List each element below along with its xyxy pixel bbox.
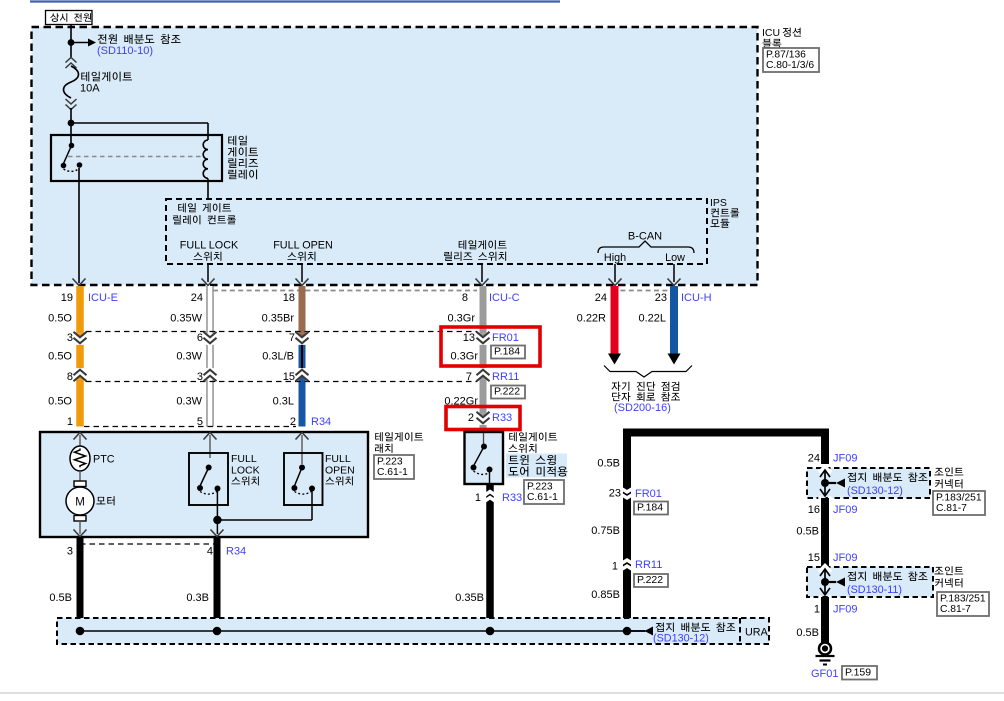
node: joint connector junction (SD130-12) <box>821 479 829 487</box>
wire 0.3L/0.3L/B (blue) lower run <box>299 334 306 427</box>
svg-text:RR11: RR11 <box>492 371 519 383</box>
svg-text:0.5B: 0.5B <box>796 526 819 538</box>
arrow: pin 5 wire entering latch box <box>204 433 217 440</box>
joint connector JF09 box (SD130-12) <box>807 468 930 498</box>
svg-text:JF09: JF09 <box>833 504 857 516</box>
wire 0.5O (orange) full run <box>76 286 84 427</box>
node: joint connector junction (SD130-11) <box>821 578 829 586</box>
arrow: relay output to pin 19 <box>73 279 86 286</box>
svg-text:0.5B: 0.5B <box>49 592 72 604</box>
svg-text:0.3L: 0.3L <box>273 396 294 408</box>
svg-text:C.61-1: C.61-1 <box>527 492 558 503</box>
svg-text:ICU-H: ICU-H <box>681 292 712 304</box>
node: bus junction 0.3B <box>213 627 222 636</box>
ref box: P.223 C.61-1 (latch) <box>374 455 414 479</box>
black stripe of 0.3L/B <box>301 338 303 380</box>
IPS control module inner box (dashed) <box>166 199 707 264</box>
ref box: P.183/251 C.81-7 (upper) <box>933 491 985 515</box>
note (highlighted): 트윈 스윙 도어 미적용 <box>506 454 567 478</box>
wire: ground link over to JF09 (0.5B) <box>627 433 825 632</box>
connector dashed line ICU-C (pins 24/18/8) <box>213 290 477 292</box>
svg-text:0.35Br: 0.35Br <box>262 313 295 325</box>
svg-text:1: 1 <box>612 561 618 573</box>
wire 0.35W/0.3W (white) full run <box>206 286 214 427</box>
ref box: P.222 (RR11) <box>491 386 525 399</box>
svg-text:FR01: FR01 <box>492 332 519 344</box>
connector box: URA <box>739 618 741 644</box>
ground GF01 symbol <box>819 643 831 655</box>
label: 접지 배분도 참조 (SD130-12) <box>848 473 928 482</box>
svg-text:19: 19 <box>61 292 73 304</box>
relay K1 switch contact <box>69 143 75 149</box>
svg-text:R33: R33 <box>502 492 522 504</box>
highlight box (red) around FR01 pin 13 <box>441 327 540 366</box>
wire 0.22L (blue) <box>670 286 678 355</box>
svg-text:0.5B: 0.5B <box>796 627 819 639</box>
svg-text:P.183/251: P.183/251 <box>936 492 982 503</box>
svg-text:(SD130-12): (SD130-12) <box>653 633 709 645</box>
svg-text:(SD200-16): (SD200-16) <box>614 402 671 414</box>
ref box: P.223 C.61-1 (switch) <box>524 480 564 504</box>
label: 테일 게이트 릴레이 컨트롤 <box>178 203 231 212</box>
svg-text:0.3W: 0.3W <box>176 396 202 408</box>
svg-text:7: 7 <box>466 371 472 383</box>
connector dashed line R34 bottom <box>80 543 214 545</box>
svg-text:High: High <box>604 252 626 264</box>
svg-text:M: M <box>75 497 85 509</box>
wire: junction down to pin 4 <box>216 520 218 534</box>
svg-text:FULL OPEN: FULL OPEN <box>273 240 333 252</box>
bottom separator line <box>0 692 1004 694</box>
svg-text:FR01: FR01 <box>635 488 662 500</box>
arrowhead: 0.22L to diagnostic circuit <box>668 354 681 365</box>
svg-text:2: 2 <box>468 412 474 424</box>
brace: diagnostic link reference <box>604 366 692 378</box>
svg-text:13: 13 <box>463 332 475 344</box>
ground wire 0.3B (latch pin 4) <box>214 537 221 631</box>
label: 조인트 커넥터 (upper) <box>934 467 963 476</box>
svg-text:16: 16 <box>808 504 820 516</box>
svg-text:C.80-1/3/6: C.80-1/3/6 <box>766 60 814 71</box>
label: 접지 배분도 참조 (SD130-12) bus <box>656 623 736 632</box>
switch: FULL OPEN 스위치 box <box>296 433 309 440</box>
svg-text:(SD110-10): (SD110-10) <box>97 45 153 57</box>
wire: FULL LOCK output to junction <box>216 491 218 520</box>
wire: relay switch output down to pin 19 <box>78 168 80 283</box>
node: power distribution tap junction <box>68 39 75 46</box>
fuse F1: 테일게이트 10A fusible link <box>66 58 77 63</box>
ground wire 0.5B (latch pin 3) <box>77 537 84 631</box>
label: 조인트 커넥터 (lower) <box>934 566 963 575</box>
connector cuts row 2 (pins 3/6/7/13) <box>74 333 85 345</box>
wire motor to pin 3 <box>79 521 81 534</box>
relay K1 coil <box>203 140 208 178</box>
ground wire 0.35B (switch) <box>486 484 494 631</box>
svg-text:ICU-C: ICU-C <box>489 292 520 304</box>
component box: 테일게이트 스위치 <box>465 432 504 484</box>
svg-text:24: 24 <box>191 292 203 304</box>
svg-text:8: 8 <box>67 371 73 383</box>
wire 0.3Gr/0.22Gr (gray) full run <box>480 286 487 432</box>
svg-text:FULL: FULL <box>231 453 257 465</box>
ground bus box (dashed, blue fill) <box>57 618 769 644</box>
arrow: release switch input from pin 8 <box>481 264 483 282</box>
svg-text:LOCK: LOCK <box>231 465 260 477</box>
ref box: P.184 (FR01 right) <box>634 502 668 515</box>
joint connector JF09 box (SD130-11) <box>807 567 933 597</box>
svg-text:P.223: P.223 <box>527 481 553 492</box>
svg-text:3: 3 <box>67 546 73 558</box>
arrow: ground distribution reference <box>645 627 654 636</box>
svg-text:P.183/251: P.183/251 <box>940 593 986 604</box>
svg-text:8: 8 <box>462 292 468 304</box>
ICU junction block outer box (dashed, blue fill) <box>32 27 758 285</box>
svg-text:R34: R34 <box>226 546 246 558</box>
wire 0.5B between joint connectors <box>821 498 829 567</box>
svg-text:0.35W: 0.35W <box>170 313 202 325</box>
svg-text:23: 23 <box>609 488 621 500</box>
wire: FULL OPEN output joins FULL LOCK output <box>311 490 313 520</box>
switch: FULL LOCK 스위치 box <box>189 453 228 505</box>
svg-text:ICU: ICU <box>762 27 780 39</box>
svg-text:0.75B: 0.75B <box>591 525 620 537</box>
svg-text:0.85B: 0.85B <box>591 589 620 601</box>
svg-text:0.22R: 0.22R <box>577 313 606 325</box>
label: 테일게이트 릴리즈 스위치 (module input) <box>459 240 507 249</box>
arrow: FULL LOCK output to pin 24 <box>207 264 209 282</box>
svg-text:P.159: P.159 <box>845 666 871 678</box>
connector cut R33 pin 2 <box>477 413 488 425</box>
node: bus junction 0.85B <box>623 627 632 636</box>
svg-text:1: 1 <box>475 492 481 504</box>
label: 전원 배분도 참조 (SD110-10) <box>98 34 181 44</box>
motor M (tailgate latch motor) <box>74 481 86 487</box>
wire: main feed from 상시 전원 down to fuse <box>70 25 72 59</box>
label: 테일게이트 스위치 <box>509 432 557 441</box>
connector cuts row 3 (pins 8/3/15/7) <box>74 368 85 380</box>
svg-text:7: 7 <box>289 332 295 344</box>
svg-text:6: 6 <box>197 332 203 344</box>
PTC thermistor <box>70 446 90 471</box>
svg-text:URA: URA <box>745 627 769 639</box>
svg-text:JF09: JF09 <box>833 604 857 616</box>
arrow: B-CAN High to pin 24 <box>614 264 616 282</box>
label: 접지 배분도 참조 (SD130-11) <box>848 572 928 581</box>
svg-text:23: 23 <box>655 292 667 304</box>
node: bus junction 0.5B <box>76 627 85 636</box>
label box: 상시 전원 (constant power) <box>46 11 93 25</box>
svg-text:0.3Gr: 0.3Gr <box>450 351 478 363</box>
ref box: P.184 (FR01) <box>491 346 525 359</box>
svg-text:15: 15 <box>808 552 820 564</box>
svg-text:FULL: FULL <box>325 453 351 465</box>
svg-text:C.61-1: C.61-1 <box>377 467 408 478</box>
svg-text:C.81-7: C.81-7 <box>936 503 967 514</box>
connector dashed line ICU-H (pins 24/23) <box>612 290 676 292</box>
wire: branch to relay coil <box>71 122 208 124</box>
svg-text:PTC: PTC <box>93 454 115 466</box>
svg-text:P.87/136: P.87/136 <box>766 49 806 60</box>
node: bus junction 0.35B <box>486 627 495 636</box>
ref box: P.87/136 C.80-1/3/6 <box>763 48 819 72</box>
svg-text:P.184: P.184 <box>494 345 520 357</box>
svg-text:P.184: P.184 <box>637 501 663 513</box>
svg-text:JF09: JF09 <box>833 453 857 465</box>
svg-text:R33: R33 <box>492 412 512 424</box>
label: 테일게이트 래치 <box>375 432 423 441</box>
svg-text:JF09: JF09 <box>833 552 857 564</box>
ref box: P.222 (RR11 right) <box>634 574 668 587</box>
svg-text:(SD130-12): (SD130-12) <box>847 485 903 497</box>
svg-text:0.3L/B: 0.3L/B <box>262 351 294 363</box>
arrow: pin 1 wire entering latch box <box>74 433 87 440</box>
svg-text:(SD130-11): (SD130-11) <box>847 584 902 596</box>
svg-text:IPS: IPS <box>710 197 727 209</box>
connector row 3 dashed line <box>86 381 477 383</box>
in-line connector RR11 pin 1 <box>617 566 637 572</box>
ground bus wire <box>80 630 649 632</box>
arrow: B-CAN Low to pin 23 <box>673 264 675 282</box>
arrow: FULL OPEN output to pin 18 <box>301 264 303 282</box>
svg-text:0.5O: 0.5O <box>48 351 72 363</box>
svg-text:0.5B: 0.5B <box>597 458 620 470</box>
svg-text:18: 18 <box>283 292 295 304</box>
svg-text:P.223: P.223 <box>377 456 403 467</box>
top section boundary line (blue) <box>30 0 560 2</box>
svg-text:P.222: P.222 <box>494 385 520 397</box>
svg-text:OPEN: OPEN <box>325 465 355 477</box>
svg-text:Low: Low <box>665 252 685 264</box>
relay K1 internal dashed link <box>68 156 203 158</box>
svg-text:4: 4 <box>207 546 213 558</box>
svg-text:GF01: GF01 <box>811 668 839 680</box>
in-line connector FR01 pin 23 <box>617 486 637 492</box>
node: branch junction to relay coil <box>68 120 75 127</box>
highlight box (red) around R33 pin 2 <box>446 407 520 430</box>
svg-text:0.5O: 0.5O <box>48 313 72 325</box>
node: switch outputs junction <box>213 516 221 524</box>
svg-text:C.81-7: C.81-7 <box>940 604 971 615</box>
connector row 4 dashed line <box>84 426 296 428</box>
label: fuse 테일게이트 10A <box>81 72 132 82</box>
svg-text:0.22L: 0.22L <box>638 313 666 325</box>
wire 0.35Br (brown) upper run <box>299 286 306 334</box>
ref box: P.159 <box>842 666 877 680</box>
svg-text:3: 3 <box>67 332 73 344</box>
svg-text:RR11: RR11 <box>635 559 662 571</box>
svg-text:24: 24 <box>595 292 607 304</box>
relay K1: tailgate release relay box <box>51 135 222 181</box>
svg-text:ICU-E: ICU-E <box>88 292 118 304</box>
arrow: reference to power distribution diagram <box>71 42 88 44</box>
svg-text:0.35B: 0.35B <box>455 592 484 604</box>
connector row 2 dashed line <box>86 331 477 333</box>
wire PTC to motor <box>79 471 81 481</box>
svg-text:10A: 10A <box>80 83 100 95</box>
svg-text:P.222: P.222 <box>637 574 663 586</box>
svg-text:0.3B: 0.3B <box>186 592 209 604</box>
wire: relay coil to IPS control module box <box>207 179 209 199</box>
svg-text:0.3W: 0.3W <box>176 351 202 363</box>
wire: fuse to relay switch <box>70 108 72 146</box>
wire 0.22R (red) <box>611 286 619 355</box>
switch contacts (tailgate release) <box>481 444 487 450</box>
label: 테일 게이트 릴리즈 릴레이 <box>228 136 247 146</box>
svg-text:R34: R34 <box>311 416 331 428</box>
svg-text:FULL LOCK: FULL LOCK <box>180 240 239 252</box>
svg-text:0.5O: 0.5O <box>48 396 72 408</box>
svg-text:1: 1 <box>67 416 73 428</box>
arrowhead: 0.22R to diagnostic circuit <box>608 354 621 365</box>
label: 자기 진단 점검 단자 회로 참조 (SD200-16) <box>611 382 679 391</box>
component box: 테일게이트 래치 (tailgate latch) <box>40 432 368 537</box>
wire 0.5B to ground <box>821 597 829 643</box>
svg-text:1: 1 <box>814 604 820 616</box>
svg-text:24: 24 <box>808 453 820 465</box>
svg-text:0.3Gr: 0.3Gr <box>447 313 475 325</box>
ref box: P.183/251 C.81-7 (lower) <box>937 592 989 616</box>
